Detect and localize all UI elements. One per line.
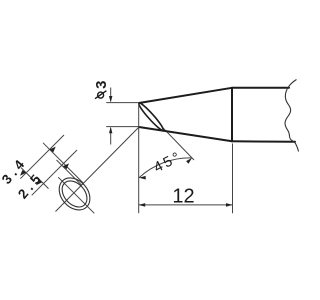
svg-text:3: 3 [93, 81, 110, 89]
svg-text:12: 12 [172, 186, 194, 208]
